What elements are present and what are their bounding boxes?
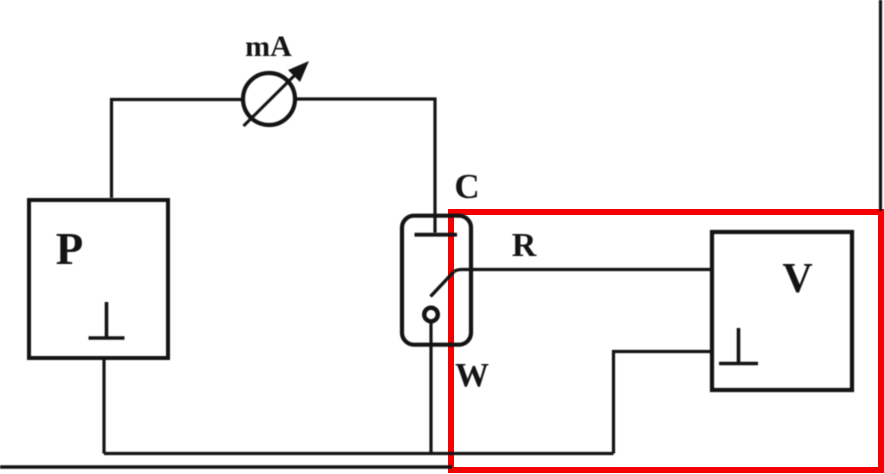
black page border right xyxy=(879,0,882,211)
red highlight rectangle xyxy=(451,212,881,470)
switch arm xyxy=(431,272,455,297)
ammeter needle xyxy=(244,70,301,126)
wire contact to bottom rail xyxy=(429,322,432,454)
svg-text:P: P xyxy=(56,224,84,274)
black page border bottom xyxy=(0,465,452,468)
wire voltmeter lower branch xyxy=(614,352,713,454)
svg-text:V: V xyxy=(782,256,812,302)
wire P top to ammeter xyxy=(112,100,244,199)
ground symbol in P xyxy=(89,302,125,338)
ground symbol in V xyxy=(719,328,758,364)
switch contact circle W xyxy=(424,308,438,322)
power supply box P xyxy=(29,200,168,358)
electrolytic cell rounded box xyxy=(402,216,471,345)
ammeter mA xyxy=(243,73,295,125)
svg-text:R: R xyxy=(512,227,537,264)
svg-text:C: C xyxy=(454,167,479,206)
electrode plate xyxy=(415,233,458,237)
wire P bottom to rail xyxy=(102,358,105,454)
wire ammeter to cell xyxy=(295,99,435,233)
wire R to voltmeter xyxy=(454,270,712,272)
svg-text:W: W xyxy=(455,357,489,394)
ammeter needle arrowhead xyxy=(288,61,309,82)
voltmeter box V xyxy=(712,232,852,390)
bottom rail wire xyxy=(104,452,614,455)
svg-text:mA: mA xyxy=(245,30,292,63)
